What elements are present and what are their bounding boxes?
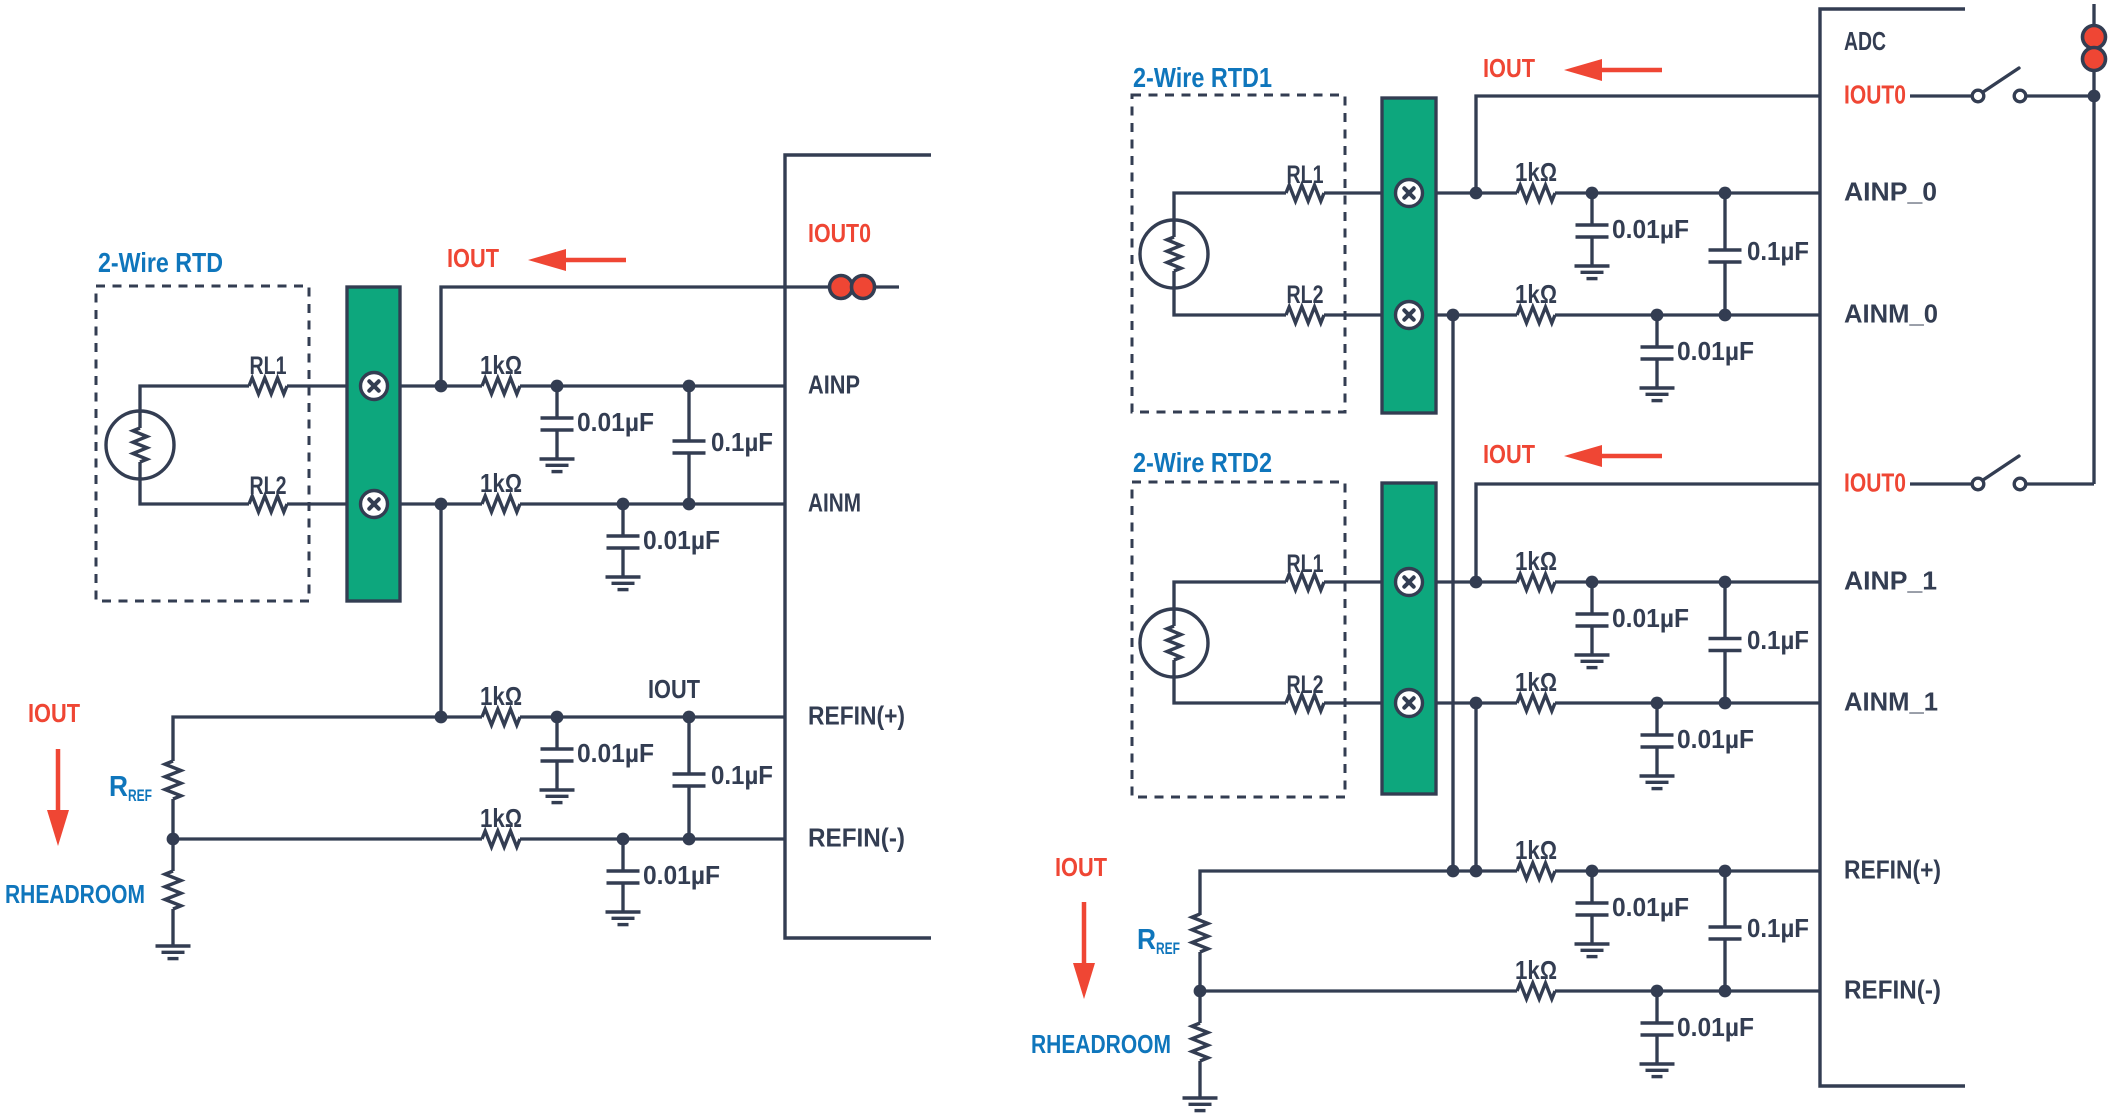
wire AINP_1 row left xyxy=(1436,580,1517,583)
label R5 1kOhm xyxy=(1515,157,1557,187)
svg-text:R: R xyxy=(1137,924,1156,956)
label IOUT (red, right middle) xyxy=(1483,439,1535,469)
wire RTD1 top to RL1 xyxy=(1174,193,1286,237)
svg-text:AINM_1: AINM_1 xyxy=(1844,687,1938,717)
arrow IOUT down (right) xyxy=(1073,902,1095,999)
svg-text:IOUT: IOUT xyxy=(447,243,499,273)
RTD sensor (left) xyxy=(106,411,174,479)
junction REFIN(-) at C6 xyxy=(683,833,696,846)
svg-text:REF: REF xyxy=(1156,939,1180,958)
port IOUT0 red pair (left) xyxy=(830,276,875,299)
svg-text:0.1µF: 0.1µF xyxy=(711,760,773,790)
resistor R3 1 kOhm (REFIN+) xyxy=(482,709,520,725)
junction AINP_1 at C12 xyxy=(1719,576,1732,589)
svg-text:IOUT0: IOUT0 xyxy=(808,218,871,248)
junction AINP at C1 xyxy=(551,380,564,393)
wire AINM_0 row left xyxy=(1436,313,1517,316)
label RL1 xyxy=(250,352,287,380)
resistor RL1 (RTD2) xyxy=(1286,574,1324,590)
svg-text:0.1µF: 0.1µF xyxy=(711,427,773,457)
junction AINM_1 at x1476 xyxy=(1470,697,1483,710)
switch SW1 (IOUT0 A) xyxy=(1910,68,2094,102)
wire RTD2 top to RL1 xyxy=(1174,582,1286,626)
svg-text:RL2: RL2 xyxy=(250,472,287,500)
label IOUT (red, top left) xyxy=(447,243,499,273)
terminal contact X4 xyxy=(1396,302,1423,329)
pin label IOUT0 (left ADC) xyxy=(808,218,871,248)
capacitor C5 0.01uF with ground xyxy=(606,839,641,925)
label RL1 (RTD1) xyxy=(1287,161,1324,189)
junction AINM_0 at C8 xyxy=(1651,309,1664,322)
wire RTD top to RL1 xyxy=(140,386,249,428)
svg-text:RHEADROOM: RHEADROOM xyxy=(5,879,145,909)
wire IOUT0 net A (to ADC pin) xyxy=(1476,96,1820,193)
svg-text:0.1µF: 0.1µF xyxy=(1747,625,1809,655)
junction REFIN(+) at C6 xyxy=(683,711,696,724)
resistor RL2 (RTD1) xyxy=(1286,307,1324,323)
wire AINM_1 row right xyxy=(1555,701,1820,704)
junction IOUT0 bus at SW1 xyxy=(2088,90,2101,103)
junction REFIN(-) at RREF xyxy=(167,833,180,846)
svg-text:0.1µF: 0.1µF xyxy=(1747,913,1809,943)
wire RTD2 bottom to RL2 xyxy=(1174,660,1286,703)
label C15 0.1uF xyxy=(1747,913,1809,943)
ground (right RHEADROOM) xyxy=(1183,1098,1218,1111)
label R10 1kOhm xyxy=(1515,955,1557,985)
junction AINM_0 at C9 xyxy=(1719,309,1732,322)
svg-text:1kΩ: 1kΩ xyxy=(1515,835,1557,865)
svg-text:0.01µF: 0.01µF xyxy=(577,407,654,437)
resistor R1 1 kOhm (AINP) xyxy=(482,378,520,394)
capacitor C9 0.1uF (AINP_0-AINM_0) xyxy=(1709,193,1742,315)
junction REFIN(-) at RREF right xyxy=(1194,985,1207,998)
junction REFIN(-) at C14 xyxy=(1651,985,1664,998)
wire REFIN(-) row right xyxy=(1555,989,1820,992)
svg-text:1kΩ: 1kΩ xyxy=(480,350,522,380)
junction REFIN(-) at C5 xyxy=(617,833,630,846)
capacitor C6 0.1uF (REFIN+-REFIN-) xyxy=(673,717,706,839)
svg-text:2-Wire RTD: 2-Wire RTD xyxy=(98,247,223,278)
svg-text:RHEADROOM: RHEADROOM xyxy=(1031,1029,1171,1059)
ADC box (right) xyxy=(1820,9,1965,1086)
resistor R10 1 kOhm (REFIN-) xyxy=(1517,983,1555,999)
pin label AINP_1 xyxy=(1844,566,1937,596)
wire AINM row right xyxy=(520,502,785,505)
label C10 0.01uF xyxy=(1612,603,1689,633)
pin label REFIN(-) right xyxy=(1844,975,1941,1005)
label R6 1kOhm xyxy=(1515,279,1557,309)
pin label AINM xyxy=(808,488,861,518)
label C13 0.01uF xyxy=(1612,892,1689,922)
label IOUT (red, right top) xyxy=(1483,53,1535,83)
svg-text:REFIN(-): REFIN(-) xyxy=(1844,975,1941,1005)
wire RL1 to terminal block 1 xyxy=(1324,191,1382,194)
wire AINP_0 row right xyxy=(1555,191,1820,194)
wire vertical AINM_0 to REFIN(+) xyxy=(1451,315,1454,871)
wire REFIN(-) to RHEADROOM xyxy=(171,839,174,871)
terminal contact X1 xyxy=(361,373,388,400)
label C2 0.01uF xyxy=(643,525,720,555)
terminal contact X6 xyxy=(1396,690,1423,717)
junction AINM_0 at x1453 xyxy=(1447,309,1460,322)
svg-text:2-Wire RTD2: 2-Wire RTD2 xyxy=(1133,447,1272,478)
wire RHEADROOM to ground right xyxy=(1198,1061,1201,1098)
pin label IOUT0 A (red) xyxy=(1844,80,1906,110)
resistor R8 1 kOhm (AINM_1) xyxy=(1517,695,1555,711)
wire RREF to REFIN(-) right xyxy=(1198,952,1201,991)
wire IOUT0 net (to red port) xyxy=(441,287,899,386)
svg-text:RL1: RL1 xyxy=(1287,550,1324,578)
junction AINP at x441 xyxy=(435,380,448,393)
junction AINM at x441 xyxy=(435,498,448,511)
svg-text:AINM: AINM xyxy=(808,488,861,518)
wire RL1 to terminal block xyxy=(287,384,347,387)
resistor RL2 (RTD2) xyxy=(1286,695,1324,711)
terminal contact X3 xyxy=(1396,180,1423,207)
wire REFIN(+) row right xyxy=(520,715,785,718)
resistor RHEADROOM (right) xyxy=(1192,1023,1208,1061)
label RHEADROOM xyxy=(5,879,145,909)
junction AINP_1 at x1476 xyxy=(1470,576,1483,589)
wire AINM_0 row right xyxy=(1555,313,1820,316)
svg-text:IOUT: IOUT xyxy=(28,698,80,728)
svg-text:1kΩ: 1kΩ xyxy=(1515,157,1557,187)
junction REFIN(+) at C13 xyxy=(1586,865,1599,878)
capacitor C12 0.1uF (AINP_1-AINM_1) xyxy=(1709,582,1742,703)
svg-text:1kΩ: 1kΩ xyxy=(480,803,522,833)
capacitor C15 0.1uF (REFIN+-REFIN-) xyxy=(1709,871,1742,991)
ADC box (left) xyxy=(785,155,931,938)
svg-text:1kΩ: 1kΩ xyxy=(1515,667,1557,697)
capacitor C10 0.01uF with ground xyxy=(1575,582,1610,668)
svg-text:R: R xyxy=(109,771,128,803)
svg-text:0.01µF: 0.01µF xyxy=(643,525,720,555)
resistor R2 1 kOhm (AINM) xyxy=(482,496,520,512)
terminal block 1 (green) xyxy=(1382,98,1436,413)
pin label IOUT0 B (red) xyxy=(1844,468,1906,498)
RTD2 enclosure (dashed) xyxy=(1132,482,1345,797)
switch SW2 (IOUT0 B) xyxy=(1910,456,2094,490)
wire RREF to REFIN(-) xyxy=(171,799,174,839)
svg-text:1kΩ: 1kΩ xyxy=(1515,955,1557,985)
wire REFIN(-) row (right) xyxy=(1200,989,1517,992)
svg-text:1kΩ: 1kΩ xyxy=(480,681,522,711)
label C8 0.01uF xyxy=(1677,336,1754,366)
svg-text:0.01µF: 0.01µF xyxy=(577,738,654,768)
terminal contact X5 xyxy=(1396,569,1423,596)
wire AINM_1 row left xyxy=(1436,701,1517,704)
resistor RREF (left) xyxy=(165,761,181,799)
wire REFIN(-) row xyxy=(173,837,482,840)
pin label AINM_0 xyxy=(1844,299,1938,329)
resistor RL1 (RTD1) xyxy=(1286,185,1324,201)
arrow IOUT left (right top) xyxy=(1564,59,1662,81)
svg-text:1kΩ: 1kΩ xyxy=(480,468,522,498)
arrow IOUT down (left) xyxy=(47,749,69,846)
terminal contact X2 xyxy=(361,491,388,518)
wire RL1 to terminal block 2 xyxy=(1324,580,1382,583)
svg-text:IOUT: IOUT xyxy=(648,674,700,704)
wire REFIN(+) row right xyxy=(1555,869,1820,872)
label C9 0.1uF xyxy=(1747,236,1809,266)
svg-text:REF: REF xyxy=(128,786,152,805)
svg-text:IOUT0: IOUT0 xyxy=(1844,80,1906,110)
label 2-Wire RTD1 xyxy=(1133,62,1272,93)
svg-text:AINP_0: AINP_0 xyxy=(1844,177,1937,207)
resistor RHEADROOM (left) xyxy=(165,871,181,909)
resistor RREF (right) xyxy=(1192,914,1208,952)
capacitor C4 0.01uF with ground xyxy=(540,717,575,803)
label RHEADROOM (right) xyxy=(1031,1029,1171,1059)
svg-text:RL2: RL2 xyxy=(1287,281,1324,309)
resistor R9 1 kOhm (REFIN+) xyxy=(1517,863,1555,879)
wire vertical AINM to REFIN(+) xyxy=(439,504,442,717)
label RREF (right) xyxy=(1137,924,1180,958)
svg-text:REFIN(-): REFIN(-) xyxy=(808,823,905,853)
wire AINP row right xyxy=(520,384,785,387)
label node IOUT (dark) xyxy=(648,674,700,704)
terminal block (green) xyxy=(347,287,400,601)
label R3 1kOhm xyxy=(480,681,522,711)
wire RTD bottom to RL2 xyxy=(140,462,249,504)
junction AINP_0 at C9 xyxy=(1719,187,1732,200)
capacitor C14 0.01uF with ground xyxy=(1640,991,1675,1077)
RTD sensor RTD1 xyxy=(1140,220,1208,288)
wire IOUT0 bus vertical (right) xyxy=(2092,4,2095,484)
resistor R6 1 kOhm (AINM_0) xyxy=(1517,307,1555,323)
capacitor C13 0.01uF with ground xyxy=(1575,871,1610,957)
label RL2 (RTD2) xyxy=(1287,671,1324,699)
capacitor C8 0.01uF with ground xyxy=(1640,315,1675,401)
label ADC xyxy=(1844,26,1886,56)
wire RL2 to terminal block 1 xyxy=(1324,313,1382,316)
junction REFIN(+) at x1453 xyxy=(1447,865,1460,878)
label C7 0.01uF xyxy=(1612,214,1689,244)
junction AINP at C3 xyxy=(683,380,696,393)
svg-text:0.01µF: 0.01µF xyxy=(1677,1012,1754,1042)
svg-text:IOUT: IOUT xyxy=(1483,439,1535,469)
svg-text:0.01µF: 0.01µF xyxy=(1677,336,1754,366)
wire vertical AINM_1 to REFIN(+) xyxy=(1474,703,1477,871)
terminal block 2 (green) xyxy=(1382,483,1436,794)
RTD1 enclosure (dashed) xyxy=(1132,95,1345,412)
pin label REFIN(+) right xyxy=(1844,855,1941,885)
label R2 1kOhm xyxy=(480,468,522,498)
wire REFIN(+) row (right) xyxy=(1200,871,1517,915)
svg-text:0.01µF: 0.01µF xyxy=(1677,724,1754,754)
label C3 0.1uF xyxy=(711,427,773,457)
svg-text:0.01µF: 0.01µF xyxy=(1612,892,1689,922)
resistor RL1 xyxy=(249,378,287,394)
wire RTD1 bottom to RL2 xyxy=(1174,271,1286,315)
label C12 0.1uF xyxy=(1747,625,1809,655)
2-wire RTD enclosure (dashed) xyxy=(96,286,309,601)
junction AINM at C3 xyxy=(683,498,696,511)
label IOUT (red, bottom left) xyxy=(28,698,80,728)
label C5 0.01uF xyxy=(643,860,720,890)
label 2-Wire RTD xyxy=(98,247,223,278)
label 2-Wire RTD2 xyxy=(1133,447,1272,478)
pin label REFIN(+) left xyxy=(808,701,905,731)
junction REFIN(+) at C15 xyxy=(1719,865,1732,878)
capacitor C2 0.01uF with ground xyxy=(606,504,641,590)
pin label AINM_1 xyxy=(1844,687,1938,717)
junction AINM_1 at C11 xyxy=(1651,697,1664,710)
wire RL2 to terminal block 2 xyxy=(1324,701,1382,704)
pin label AINP xyxy=(808,370,860,400)
arrow IOUT left (right middle) xyxy=(1564,445,1662,467)
wire REFIN(-) row right xyxy=(520,837,785,840)
ground (left RHEADROOM) xyxy=(156,946,191,959)
label R7 1kOhm xyxy=(1515,546,1557,576)
svg-text:AINM_0: AINM_0 xyxy=(1844,299,1938,329)
svg-text:IOUT: IOUT xyxy=(1055,852,1107,882)
resistor RL2 xyxy=(249,496,287,512)
resistor R7 1 kOhm (AINP_1) xyxy=(1517,574,1555,590)
resistor R5 1 kOhm (AINP_0) xyxy=(1517,185,1555,201)
label C6 0.1uF xyxy=(711,760,773,790)
port IOUT0 red pair (right) xyxy=(2083,26,2106,71)
label R4 1kOhm xyxy=(480,803,522,833)
svg-text:ADC: ADC xyxy=(1844,26,1886,56)
resistor R4 1 kOhm (REFIN-) xyxy=(482,831,520,847)
junction AINP_1 at C10 xyxy=(1586,576,1599,589)
label RL2 xyxy=(250,472,287,500)
svg-text:REFIN(+): REFIN(+) xyxy=(808,701,905,731)
junction AINP_0 at C7 xyxy=(1586,187,1599,200)
wire IOUT0 net B (to ADC pin) xyxy=(1476,484,1820,582)
svg-text:AINP_1: AINP_1 xyxy=(1844,566,1937,596)
wire AINP row left xyxy=(400,384,482,387)
wire RHEADROOM to ground xyxy=(171,909,174,946)
junction AINM at C2 xyxy=(617,498,630,511)
label RL2 (RTD1) xyxy=(1287,281,1324,309)
svg-text:0.1µF: 0.1µF xyxy=(1747,236,1809,266)
capacitor C3 0.1uF (AINP-AINM) xyxy=(673,386,706,504)
svg-text:0.01µF: 0.01µF xyxy=(643,860,720,890)
wire AINP_0 row left xyxy=(1436,191,1517,194)
svg-text:IOUT0: IOUT0 xyxy=(1844,468,1906,498)
svg-text:RL1: RL1 xyxy=(1287,161,1324,189)
junction REFIN(+) at C4 xyxy=(551,711,564,724)
wire REFIN(-) to RHEADROOM right xyxy=(1198,991,1201,1023)
capacitor C1 0.01uF with ground xyxy=(540,386,575,472)
wire REFIN(+) row xyxy=(173,717,482,761)
label C1 0.01uF xyxy=(577,407,654,437)
label R9 1kOhm xyxy=(1515,835,1557,865)
junction REFIN(-) at C15 xyxy=(1719,985,1732,998)
capacitor C11 0.01uF with ground xyxy=(1640,703,1675,789)
svg-text:2-Wire RTD1: 2-Wire RTD1 xyxy=(1133,62,1272,93)
junction REFIN(+) at x441 xyxy=(435,711,448,724)
label C11 0.01uF xyxy=(1677,724,1754,754)
svg-text:1kΩ: 1kΩ xyxy=(1515,279,1557,309)
label RREF xyxy=(109,771,152,805)
label IOUT (red, right bottom) xyxy=(1055,852,1107,882)
pin label REFIN(-) left xyxy=(808,823,905,853)
wire AINM row left xyxy=(400,502,482,505)
svg-text:0.01µF: 0.01µF xyxy=(1612,214,1689,244)
label R8 1kOhm xyxy=(1515,667,1557,697)
pin label AINP_0 xyxy=(1844,177,1937,207)
junction REFIN(+) at x1476 xyxy=(1470,865,1483,878)
svg-text:IOUT: IOUT xyxy=(1483,53,1535,83)
svg-text:1kΩ: 1kΩ xyxy=(1515,546,1557,576)
svg-text:RL1: RL1 xyxy=(250,352,287,380)
junction AINM_1 at C12 xyxy=(1719,697,1732,710)
capacitor C7 0.01uF with ground xyxy=(1575,193,1610,279)
label C4 0.01uF xyxy=(577,738,654,768)
wire RL2 to terminal block xyxy=(287,502,347,505)
junction AINP_0 at x1476 xyxy=(1470,187,1483,200)
svg-text:REFIN(+): REFIN(+) xyxy=(1844,855,1941,885)
svg-text:AINP: AINP xyxy=(808,370,860,400)
svg-text:0.01µF: 0.01µF xyxy=(1612,603,1689,633)
RTD sensor RTD2 xyxy=(1140,609,1208,677)
svg-text:RL2: RL2 xyxy=(1287,671,1324,699)
wire AINP_1 row right xyxy=(1555,580,1820,583)
label R1 1kOhm xyxy=(480,350,522,380)
label C14 0.01uF xyxy=(1677,1012,1754,1042)
label RL1 (RTD2) xyxy=(1287,550,1324,578)
arrow IOUT left (top) xyxy=(528,249,626,271)
